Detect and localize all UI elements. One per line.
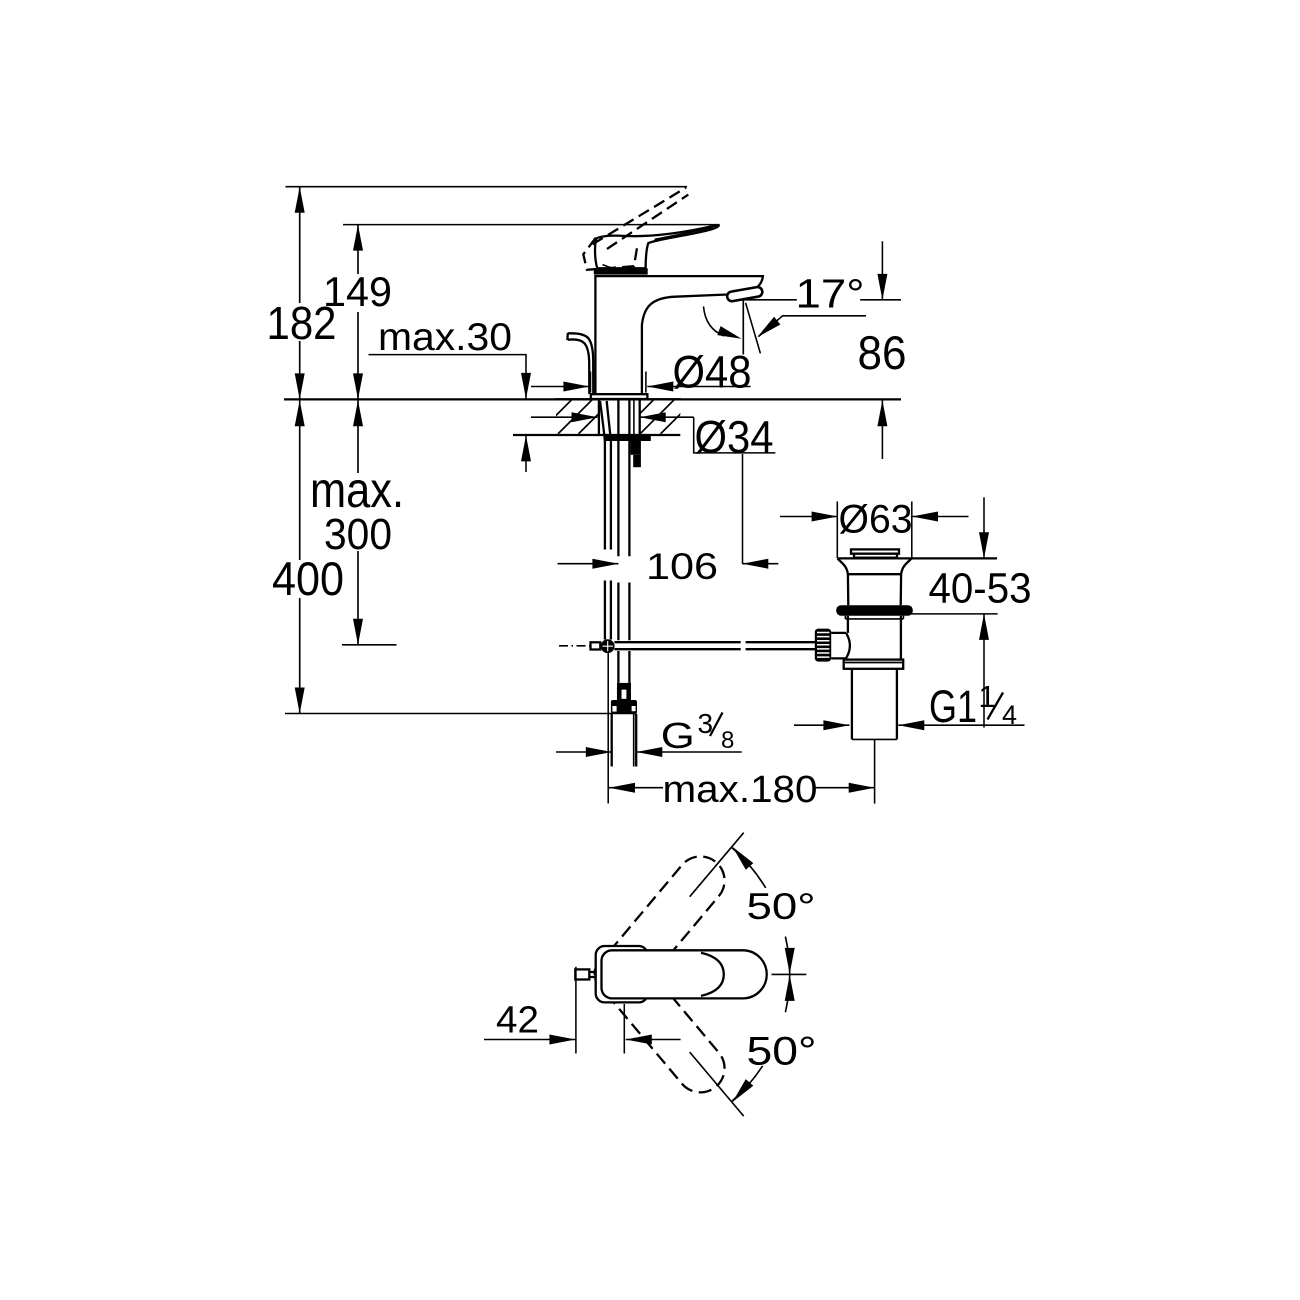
- svg-text:Ø48: Ø48: [673, 346, 752, 397]
- svg-text:Ø63: Ø63: [839, 498, 913, 542]
- svg-text:50°: 50°: [747, 886, 816, 927]
- svg-text:149: 149: [323, 268, 392, 315]
- svg-text:3: 3: [698, 708, 714, 739]
- svg-text:G: G: [661, 715, 695, 756]
- svg-text:400: 400: [272, 552, 344, 605]
- svg-text:50°: 50°: [747, 1030, 817, 1074]
- svg-text:8: 8: [721, 727, 734, 754]
- svg-text:max.30: max.30: [378, 316, 512, 359]
- svg-text:4: 4: [1002, 700, 1017, 730]
- svg-text:42: 42: [496, 1000, 539, 1042]
- svg-text:17°: 17°: [796, 270, 865, 316]
- svg-text:1: 1: [979, 679, 996, 714]
- svg-text:40-53: 40-53: [929, 565, 1032, 613]
- svg-text:86: 86: [858, 326, 907, 379]
- svg-text:max.180: max.180: [663, 769, 818, 811]
- svg-text:G1: G1: [929, 681, 977, 732]
- svg-text:Ø34: Ø34: [695, 412, 774, 463]
- svg-text:106: 106: [646, 546, 718, 587]
